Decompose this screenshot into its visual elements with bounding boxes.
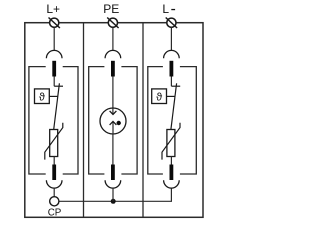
svg-text:L: L	[162, 2, 169, 16]
plug pin (bottom black bar) PE module	[111, 165, 115, 181]
plug pin (top black bar) L- module	[170, 61, 174, 77]
plug-in socket contact (top arc) L+ module	[46, 50, 62, 58]
plug pin (top black bar) L+ module	[52, 61, 56, 77]
temperature sensor box (theta) L+	[35, 89, 50, 104]
wire socket to CP terminal	[53, 188, 55, 197]
inner module box L+ (plug-in module outline)	[29, 67, 78, 174]
temperature sensor box (theta) L-	[152, 89, 167, 104]
wire varistor to bottom pin	[170, 157, 172, 165]
svg-text:L+: L+	[46, 2, 60, 16]
wire pin to disconnector	[170, 77, 172, 87]
plug pin (bottom black bar) L+ module	[52, 165, 56, 181]
link thermal sensor to switch blade	[167, 95, 175, 97]
wire varistor to bottom pin	[53, 157, 55, 165]
inner module box L- (plug-in module outline)	[148, 67, 197, 174]
junction dot on CP bus under PE module	[111, 199, 116, 204]
wire from PE terminal to plug contact	[112, 27, 114, 51]
plug pin (top black bar) PE module	[111, 61, 115, 77]
link thermal sensor to switch blade	[49, 95, 57, 97]
plug pin (bottom black bar) L- module	[170, 165, 174, 181]
wire socket to CP bus junction	[112, 188, 114, 201]
terminal PE (screw terminal circle with slash)	[107, 18, 118, 29]
inner module box PE (plug-in module outline)	[89, 67, 137, 174]
CP terminal circle	[50, 197, 59, 206]
wire pin to spark gap	[112, 77, 114, 114]
varistor RV1 (L+ module)	[45, 123, 63, 160]
wire from L- terminal to plug contact	[170, 27, 172, 51]
outer enclosure box	[25, 23, 203, 218]
plug-in socket contact (bottom arc) L- module	[164, 180, 180, 188]
triggered spark gap (gas discharge tube) PE module	[100, 108, 126, 134]
wire spark gap to bottom pin	[112, 134, 114, 165]
module divider wire (between L+ and PE compartments)	[83, 23, 85, 218]
terminal L+ (screw terminal circle with slash)	[49, 18, 60, 29]
module divider wire (between PE and L- compartments)	[142, 23, 144, 218]
plug-in socket contact (top arc) PE module	[105, 50, 121, 58]
svg-text:PE: PE	[103, 2, 119, 16]
thermal disconnector switch (fixed contact + blade) L-	[171, 83, 180, 129]
svg-text:ϑ: ϑ	[156, 91, 162, 103]
CP bus wire (horizontal)	[59, 188, 171, 201]
varistor RV2 (L- module)	[162, 123, 180, 160]
plug-in socket contact (top arc) L- module	[164, 50, 180, 58]
plug-in socket contact (bottom arc) L+ module	[46, 180, 62, 188]
wire from L+ terminal to plug contact	[53, 27, 55, 51]
svg-text:ϑ: ϑ	[39, 91, 45, 103]
terminal L- (screw terminal circle with slash)	[166, 18, 177, 29]
svg-text:CP: CP	[48, 208, 62, 219]
plug-in socket contact (bottom arc) PE module	[105, 180, 121, 188]
wire pin to disconnector	[53, 77, 55, 87]
thermal disconnector switch (fixed contact + blade) L+	[54, 83, 63, 129]
